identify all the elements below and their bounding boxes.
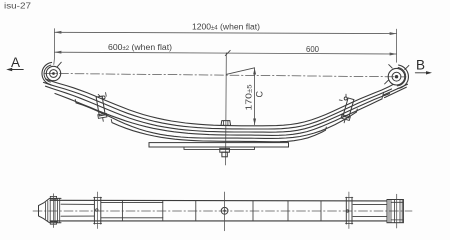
svg-text:1200±4 (when flat): 1200±4 (when flat) [192, 22, 260, 32]
plan leaf step lines [121, 201, 123, 221]
plan taper lines left [61, 204, 94, 216]
plan right eye block [387, 200, 403, 223]
side view centerline through eyes [44, 73, 406, 77]
plan center bolt [221, 207, 228, 214]
left eye tick NE [57, 62, 61, 67]
leaf 6 line [112, 123, 326, 142]
svg-text:600: 600 [306, 44, 319, 54]
plan clip left [94, 197, 100, 224]
right eye wrap outer arc [398, 65, 409, 88]
right eye wrap tail outer line [383, 84, 408, 95]
dimension line 600±2 / 600 [54, 52, 396, 54]
plan left eye centerline [52, 194, 54, 228]
leaf 2/3 interface line [46, 86, 390, 132]
right eye wrap inner arc [397, 68, 405, 86]
plan left eye bushing block [39, 198, 62, 222]
right eye outer circle [388, 68, 405, 85]
lower helper strip [184, 147, 255, 149]
right eye wrap tail inner line [385, 87, 407, 97]
svg-text:600±2 (when flat): 600±2 (when flat) [108, 42, 172, 52]
plan clip right centerline [348, 192, 350, 229]
right eye tick NW [389, 65, 393, 69]
view arrow A [9, 69, 24, 71]
plan clip left centerline [97, 192, 99, 229]
plan second width lines left [101, 203, 163, 218]
plan right eye centerline [396, 194, 398, 228]
leaf 6 end step right [325, 127, 328, 130]
plan clip right bolt dot [346, 210, 348, 212]
svg-text:C: C [255, 91, 265, 98]
plan clip left bolt dot [96, 209, 98, 211]
leaf 4 end step right [381, 96, 384, 99]
leaf 5 line [76, 103, 357, 139]
dimension line 1200±4 [54, 32, 396, 33]
view arrow B [415, 72, 429, 74]
plan clip right [346, 197, 352, 224]
camber dimension leader diagonal [227, 68, 255, 75]
leaf 1/2 interface line [44, 82, 392, 129]
right eye pin dot [395, 75, 398, 78]
camber dimension line 170±5 [254, 68, 256, 125]
leaf 3/4 interface line [55, 94, 382, 136]
right tail end step [382, 92, 385, 95]
plan horizontal centerline [33, 210, 412, 212]
right eye tick NE [405, 65, 409, 69]
leaf 6 end step left [110, 119, 113, 122]
left eye wrap inner arc [44, 65, 51, 82]
svg-text:170±5: 170±5 [244, 84, 254, 111]
flat bottom leaf [149, 143, 289, 147]
svg-text:B: B [416, 58, 425, 73]
left eye pin dot [52, 72, 55, 75]
rebound clip right [340, 98, 355, 124]
svg-text:A: A [11, 55, 20, 70]
extension line above left eye [53, 29, 56, 65]
center tick on 600 dimension [225, 50, 230, 55]
rebound clip left [95, 96, 108, 122]
left eye outer circle [46, 66, 60, 80]
left eye bushing circle [50, 70, 58, 78]
leaf 5 end step left [74, 100, 77, 103]
right eye bushing circle [392, 72, 401, 81]
left eye wrap outer arc [42, 62, 52, 84]
plan band top edge [50, 199, 387, 202]
plan left eye tabs [50, 196, 56, 199]
leaf 5 end step right [356, 109, 359, 112]
clip bolt right [344, 97, 347, 100]
center bolt vertical centerline (side view) [225, 53, 228, 165]
clip bolt left [102, 96, 105, 99]
plan band bottom edge [50, 220, 387, 222]
extension line above right eye [396, 29, 398, 62]
svg-text:isu-27: isu-27 [4, 2, 32, 11]
leaf 1 top line [46, 79, 393, 126]
right eye tick SW [385, 80, 389, 84]
plan center bolt centerline [224, 192, 226, 231]
plan taper lines right [353, 205, 387, 217]
center bolt head bottom [220, 148, 230, 152]
center bolt nut top [221, 121, 231, 126]
